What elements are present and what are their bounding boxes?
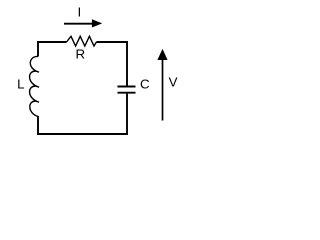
svg-text:R: R — [75, 47, 85, 62]
wire left side upper — [37, 41, 39, 56]
svg-text:V: V — [169, 75, 178, 90]
wire right side lower (capacitor to bottom) — [126, 94, 128, 135]
wire left side lower — [37, 116, 39, 135]
svg-text:I: I — [78, 4, 82, 19]
svg-text:L: L — [17, 77, 24, 92]
svg-text:C: C — [140, 77, 150, 92]
wire top-left horizontal segment — [37, 41, 66, 43]
wire right side upper (to capacitor) — [126, 41, 128, 86]
voltage arrow V (head) — [157, 49, 167, 60]
capacitor C bottom plate — [118, 92, 136, 94]
capacitor C top plate — [118, 86, 136, 88]
voltage arrow V (shaft) — [162, 60, 164, 121]
current arrow I (shaft) — [64, 23, 92, 25]
wire top-right horizontal segment — [96, 41, 128, 43]
inductor L (4 loops) — [30, 56, 39, 116]
wire bottom horizontal — [37, 133, 128, 135]
current arrow I (head) — [92, 19, 102, 27]
resistor R — [67, 36, 97, 46]
